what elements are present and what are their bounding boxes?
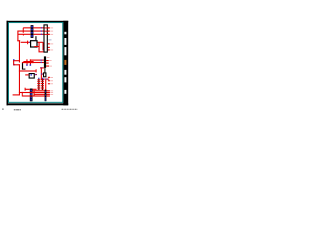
capacitor C2 pin dot [30, 64, 32, 66]
capacitor C1 C2 plates blob [23, 61, 33, 63]
right column white cell 1 [64, 32, 66, 35]
right column orange cell [64, 60, 66, 65]
RN1 tick 5 [37, 87, 40, 88]
wire y89.2 left [25, 89, 30, 90]
diode D1 pin dot lower [13, 64, 15, 66]
stub right T2 y62.9 [46, 63, 49, 64]
RN1 tick 4 [37, 85, 40, 86]
wire vertical x38.9 [39, 42, 40, 52]
wire turn horizontal y60.6 [13, 60, 20, 61]
RN2 tick 6 [41, 88, 44, 89]
frame teal inner border bottom [8, 101, 63, 104]
capacitor C1 pin dot [26, 64, 28, 66]
net label pink y43.7 [50, 43, 53, 46]
RN2 tick 5 [41, 87, 44, 88]
pin dot y49.8 [43, 49, 44, 50]
RN2 pin dot top [42, 78, 43, 79]
wire vertical x41.2 [41, 68, 42, 80]
net label pink y77.2 [50, 76, 53, 79]
title text right ticks [62, 109, 63, 110]
bundle wire y94.3 [34, 94, 50, 95]
wire cap rail H2 y62.4 [22, 62, 44, 63]
wire left vertical upper x17.8 [17, 31, 18, 42]
connector J2 blue cell 1 [30, 90, 32, 92]
right column white cell 3 [64, 47, 66, 55]
T3 lead up [44, 68, 45, 73]
net label pink y65.9 [49, 65, 52, 68]
right column white cell 5 [64, 77, 66, 82]
title text dash group end [20, 109, 21, 110]
diode D1 vertical lead [13, 60, 14, 65]
frame right black column [63, 21, 68, 106]
pin dot y79.1 right [46, 78, 47, 79]
connector J2 blue cell 2 [30, 93, 32, 95]
junction stub at x27.5 [27, 41, 28, 45]
component K1 top lead [35, 36, 36, 40]
component R1 black rectangle [29, 74, 34, 79]
capacitor C1 upper lead [26, 59, 27, 61]
junction dot row1 x41.4 [41, 27, 42, 28]
frame outer black border left [7, 21, 9, 106]
connector J1 black body [31, 25, 34, 38]
connector J2 blue cell 3 [30, 97, 32, 99]
net label pink y49.8 [50, 49, 53, 52]
pin dot y79.1 [43, 78, 44, 79]
RN1 tick 6 [37, 88, 40, 89]
right stub y83.6 [48, 83, 50, 84]
wire short y46.4 [34, 46, 39, 47]
IC U1 tall outline [44, 25, 47, 52]
RN1 tick 3 [37, 83, 40, 84]
junction dot left row3 [23, 35, 24, 36]
net label pink y94.3 [50, 93, 53, 96]
wire y89.2 right [33, 89, 37, 90]
connector J1 blue cell 1 [31, 26, 33, 28]
wire vertical x42.9 [43, 42, 44, 50]
net label pink row2 [50, 30, 53, 33]
RN2 tick 3 [41, 83, 44, 84]
R1 stub right y74.5 [35, 74, 37, 75]
wire net top-left corner horizontal y31.05 [18, 31, 31, 32]
R1 pin dot inner [31, 74, 33, 75]
frame outer black border bottom [7, 103, 69, 105]
component T3 black rectangle [44, 73, 46, 77]
right stub y77.2 [48, 77, 50, 78]
junction dot row1 inside T1 [45, 28, 46, 29]
net label gray y39.9 [49, 39, 52, 42]
component K1 black square [31, 41, 37, 47]
ground symbol arm [23, 69, 25, 70]
frame outer black border top [7, 21, 69, 22]
wire jog horizontal y40.7 [17, 40, 20, 41]
wire resistor row horizontal y42.2 [21, 42, 43, 43]
junction dot row3 x41.4 [41, 34, 42, 35]
connector J1 blue cell 3 [31, 32, 33, 34]
R1 pin dot right [35, 74, 36, 75]
wire y79.1 right stub [47, 79, 50, 80]
right column white cell 4 [64, 70, 66, 75]
net label pink y60.4 [49, 59, 52, 62]
R1 left stub red [25, 74, 28, 75]
T3 stub left y74 [41, 74, 43, 75]
ground symbol black L [22, 63, 23, 70]
title text mark far left [2, 109, 4, 110]
RN1 tick 2 [37, 81, 40, 82]
bus segment blue overlay on y42.2 [29, 42, 35, 43]
wire left vertical mid x19.3 [19, 40, 20, 61]
resistor network RN1 body line [38, 79, 39, 91]
title text dash group mid [16, 109, 19, 110]
wire row3 left segment y34.3 [18, 34, 31, 35]
RN2 tick 4 [41, 85, 44, 86]
wire row2 J1 to T1 y31.05 [33, 31, 49, 32]
connector J3 black body [45, 90, 47, 102]
net label pink y57.4 [47, 56, 50, 59]
frame teal inner border right [61, 22, 64, 103]
bundle vertical x33.9 [34, 90, 35, 96]
wire long horizontal y70.9 [19, 70, 37, 71]
resistor network RN2 body line [42, 79, 43, 91]
stub right T2 y65.9 [46, 66, 49, 67]
wire row3 J1 to T1 y34.3 [33, 34, 49, 35]
fork bar red [21, 92, 24, 97]
junction stub vertical at x23 [23, 28, 24, 33]
RN2 tick 2 [41, 81, 44, 82]
wire long y95.95 [22, 95, 50, 96]
junction dot row2 x41.4 [41, 30, 42, 31]
connector J3 blue cell 2 [45, 94, 46, 97]
diode D1 pin dot upper [13, 59, 15, 61]
component T2 black bar [44, 56, 46, 68]
title text dash group left [14, 109, 16, 110]
wire horizontal y51.7 [39, 51, 45, 52]
net label pink row3 [50, 33, 53, 36]
wire row1 through U1 [45, 27, 50, 30]
junction dot y67.8 [41, 67, 42, 68]
wire row1 left segment y27.85 [23, 27, 30, 28]
connector J3 blue cell 3 [45, 97, 46, 98]
right column white cell 6 [64, 90, 66, 94]
RN1 tick 1 [37, 79, 40, 80]
junction stub x36 [36, 69, 37, 72]
wire vertical x45.6 [45, 78, 46, 90]
wire row2 through U1 [45, 30, 50, 33]
right stub y80.6 [48, 80, 50, 81]
capacitor C2 upper lead [30, 59, 31, 61]
net label pink y90.75 [50, 89, 53, 92]
junction dot H2 [41, 62, 42, 63]
wire cap rail H1 y60.0 [30, 60, 44, 61]
wire left vertical lower x19.3 [19, 64, 20, 95]
net label pink y80.6 [50, 79, 53, 82]
RN1 pin dot top [38, 78, 39, 79]
connector J3 blue cell 4 [45, 100, 46, 101]
connector J2 blue cell 4 [30, 99, 32, 100]
net label pink row1 [50, 27, 53, 30]
net label pink y92.45 [50, 91, 53, 94]
junction stub x25 [25, 88, 26, 91]
bundle wire y90.75 [33, 90, 50, 91]
connector J2 black body [30, 89, 33, 102]
net label pink y83.6 [50, 82, 53, 85]
stub right T2 y60.4 [46, 60, 49, 61]
connector J1 blue cell 2 [31, 29, 33, 31]
frame teal inner border top [8, 21, 63, 24]
connector J3 blue cell 1 [45, 91, 46, 92]
wire long y92.45 [19, 92, 50, 93]
wire row3 through U1 [45, 33, 50, 36]
wire y67.8 into T2 [40, 67, 44, 68]
wire crossing y49.8 [43, 49, 50, 50]
stub right U1 y43.7 [48, 43, 50, 44]
wire y79.1 left stub [41, 79, 44, 80]
wire turn horizontal y64.7 [13, 64, 20, 65]
capacitor C2 lower lead [30, 63, 31, 65]
frame teal inner border left [7, 22, 10, 103]
wire connector to rail x19.3 [19, 61, 20, 63]
title text line right [61, 109, 78, 110]
right column white cell 2 [64, 38, 66, 45]
T3 pin dot left [41, 73, 42, 74]
capacitor C1 lower lead [27, 63, 28, 65]
wire row1 J1 to T1 y27.85 [33, 27, 49, 28]
RN2 tick 1 [41, 79, 44, 80]
wire crossing y47.3 [43, 47, 50, 48]
wire bottom-left horizontal y94.8 [13, 94, 20, 95]
connector J1 blue cell 4 [31, 35, 33, 37]
junction dot H1 [41, 59, 42, 60]
pin dot y47.3 [43, 47, 44, 48]
